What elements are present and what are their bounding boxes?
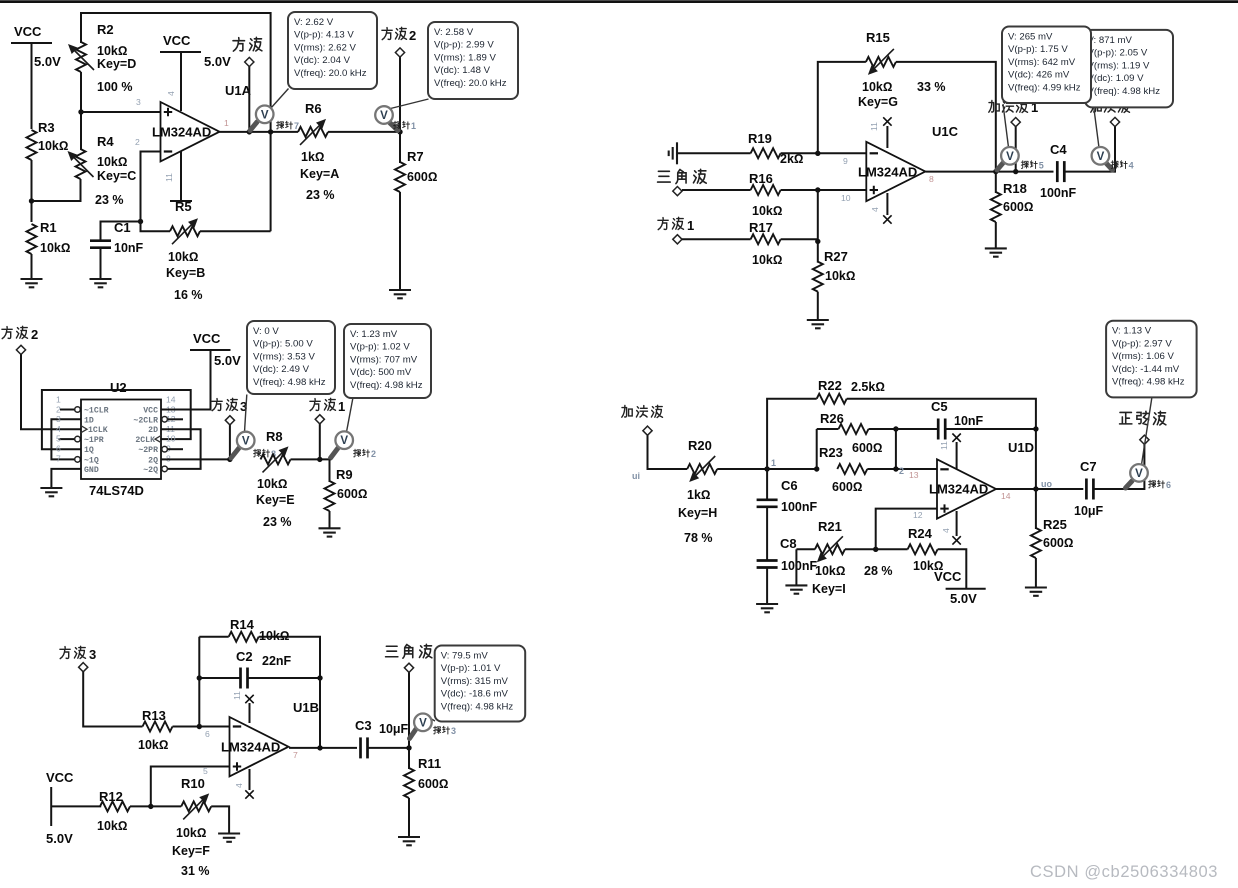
svg-text:R11: R11 [418,756,441,771]
resistor R16 [749,171,782,218]
svg-text:LM324AD: LM324AD [152,125,211,140]
pin labels left [84,407,109,475]
svg-text:5.0V: 5.0V [46,831,73,846]
svg-text:1kΩ: 1kΩ [687,488,711,502]
svg-text:3: 3 [56,414,61,424]
node 方波3 junction [227,457,232,462]
wire R6 to output node [328,131,400,133]
pin stub ~2PR [168,448,184,450]
svg-text:23 %: 23 % [95,193,124,207]
svg-text:V: 1.13 V: V: 1.13 V [1112,326,1152,337]
ground [807,320,829,328]
ground [21,279,43,287]
svg-text:33 %: 33 % [917,80,946,94]
svg-text:6: 6 [56,444,61,454]
node 方波 label [233,37,262,66]
svg-text:2: 2 [409,28,416,43]
node 加法波1 junction [1013,169,1018,174]
svg-text:V(dc): -1.44 mV: V(dc): -1.44 mV [1112,364,1180,375]
svg-text:22nF: 22nF [262,654,292,668]
svg-text:8: 8 [166,453,171,463]
measurement box probe2 [344,324,431,398]
probe 探针3 [410,714,457,739]
svg-text:14: 14 [1001,491,1011,501]
pin stub ~1CLR [60,409,75,411]
svg-text:7: 7 [56,453,61,463]
svg-text:V(dc): -18.6 mV: V(dc): -18.6 mV [441,689,509,700]
node 方波2 junction [397,129,402,134]
pin numbers left [56,395,61,464]
node B junction [78,109,83,114]
svg-text:R27: R27 [824,249,848,264]
ground [398,837,420,845]
svg-text:R20: R20 [688,438,712,453]
pin stub ~2CLR [168,418,184,420]
wire 方波1 to R17 [682,238,751,240]
svg-text:R12: R12 [99,789,123,804]
node 加法波 input label [622,405,663,435]
svg-text:~1Q: ~1Q [84,456,99,465]
node 方波2 label [382,27,416,57]
wire 方波1 stem [319,424,321,460]
svg-text:C5: C5 [931,399,948,414]
node 方波3 label [212,398,247,425]
wire R11 top [408,748,410,769]
svg-text:V: 265 mV: V: 265 mV [1008,32,1053,43]
node 三角波 label [386,644,432,672]
svg-text:Key=E: Key=E [256,493,295,507]
resistor R1 [27,220,71,255]
node A junction [29,198,34,203]
wire R24 to VCC [938,549,967,589]
svg-text:V(rms): 3.53 V: V(rms): 3.53 V [253,351,315,362]
svg-text:R14: R14 [230,617,255,632]
svg-text:LM324AD: LM324AD [929,482,988,497]
wire R12 to node E [130,805,152,807]
svg-text:U2: U2 [110,380,127,395]
svg-text:Key=A: Key=A [300,167,339,181]
measurement box probe1 [428,22,518,99]
wire R3 to node A [31,160,33,222]
svg-text:2: 2 [899,466,904,476]
potentiometer R4 [68,134,137,207]
svg-text:uo: uo [1041,479,1052,489]
wire square-wave stem [248,66,250,132]
wire R17 to R27 node [781,238,818,240]
ground [218,834,240,842]
potentiometer R10 [151,776,211,878]
resistor R25 [1031,517,1074,558]
svg-text:10μF: 10μF [379,722,409,736]
svg-text:10kΩ: 10kΩ [38,139,68,153]
svg-text:~2CLR: ~2CLR [133,416,158,425]
resistor R3 [27,120,69,160]
svg-text:2: 2 [56,404,61,414]
wire R27 to ground [817,292,819,320]
node bracket left junction [814,466,819,471]
svg-text:V(rms): 2.62 V: V(rms): 2.62 V [294,42,356,53]
node 加法波 label second [1091,100,1130,126]
svg-text:2D: 2D [148,426,158,435]
node output junction [317,745,322,750]
capacitor C7 [1074,459,1104,518]
svg-text:V(rms): 1.19 V: V(rms): 1.19 V [1088,60,1150,71]
power VCC V2 [160,33,231,69]
wire R18 top [995,172,997,193]
svg-text:1: 1 [224,118,229,128]
svg-text:11: 11 [164,173,174,182]
pin labels right [133,407,158,475]
svg-text:V(dc): 2.04 V: V(dc): 2.04 V [294,55,351,66]
svg-text:R17: R17 [749,220,773,235]
svg-text:2CLK: 2CLK [135,436,155,445]
svg-text:V(p-p): 1.02 V: V(p-p): 1.02 V [350,342,410,353]
svg-text:11: 11 [869,122,879,131]
svg-text:5.0V: 5.0V [950,591,977,606]
wire R19 to summing node [781,152,867,154]
node 方波1 label [310,398,345,424]
svg-text:V(dc): 500 mV: V(dc): 500 mV [350,367,412,378]
svg-text:7: 7 [293,750,298,760]
svg-text:V(freq): 4.98 kHz: V(freq): 4.98 kHz [350,380,423,391]
svg-text:600Ω: 600Ω [1043,536,1073,550]
wire C4 to 加法波 [1064,127,1115,172]
svg-text:GND: GND [84,466,99,475]
wire C8 to ground [766,568,768,605]
svg-text:R23: R23 [819,445,843,460]
pin 11 stem NC [883,117,891,148]
node C5 left junction [893,426,898,431]
ground [40,488,62,496]
capacitor C1 [90,220,144,255]
svg-text:1CLK: 1CLK [88,426,108,435]
wire node1 to parallel bracket [767,468,817,470]
svg-text:10kΩ: 10kΩ [752,204,782,218]
svg-text:4: 4 [941,528,951,533]
svg-text:31 %: 31 % [181,864,210,878]
wire R9 to ground [329,511,331,528]
svg-text:R9: R9 [336,467,353,482]
potentiometer R15 [858,30,946,109]
svg-text:V(p-p): 1.01 V: V(p-p): 1.01 V [441,663,501,674]
resistor R13 [138,708,173,752]
svg-text:V(freq): 20.0 kHz: V(freq): 20.0 kHz [434,78,507,89]
svg-text:10nF: 10nF [954,414,984,428]
pin bubble ~1Q [75,457,81,463]
svg-text:5: 5 [56,434,61,444]
wire parallel right bracket [895,429,897,469]
svg-text:10: 10 [166,434,176,444]
svg-text:Key=F: Key=F [172,844,210,858]
pin 4 stem NC [883,193,891,224]
node R17 junction [815,239,820,244]
probe 探针5 [997,104,1044,171]
svg-text:R26: R26 [820,411,844,426]
svg-text:R24: R24 [908,526,933,541]
resistor R17 [749,220,782,267]
svg-text:C6: C6 [781,478,798,493]
svg-text:1D: 1D [84,416,94,425]
wire top border [0,0,1238,3]
svg-text:V: 871 mV: V: 871 mV [1088,35,1133,46]
wire bias node to pin12 [876,509,937,550]
svg-text:23 %: 23 % [306,188,335,202]
svg-text:R25: R25 [1043,517,1067,532]
wire C1 top [101,222,141,241]
wire feedback right down [319,678,321,748]
measurement box probe6 [1106,321,1197,398]
wire 方波3 stem [229,425,231,460]
wire 三角波 stem [408,672,410,748]
wire R7 to ground [399,192,401,290]
wire R15 feedback [818,62,866,153]
node 正弦波 label [1120,411,1166,444]
svg-text:VCC: VCC [934,569,962,584]
measurement box probe4 [1085,30,1173,108]
svg-text:100nF: 100nF [1040,186,1076,200]
svg-text:R1: R1 [40,220,57,235]
wire R2 to node B [80,72,82,150]
svg-text:10kΩ: 10kΩ [825,269,855,283]
potentiometer R8 [256,429,295,529]
pin 11 stem NC [245,695,253,723]
wire 三角波 to R16 [682,189,751,191]
svg-text:10kΩ: 10kΩ [815,564,845,578]
wire 加法波 to R20 [648,435,688,469]
ground [985,248,1007,256]
wire R25 top [1035,489,1037,529]
resistor R9 [325,467,368,511]
svg-text:1kΩ: 1kΩ [301,150,325,164]
ground rotated R19 input [669,142,677,164]
svg-text:C2: C2 [236,649,253,664]
wire R21 to bias node [845,548,908,550]
wire node1 up to R22 [767,399,817,469]
wire VCC to R12 [51,805,101,807]
svg-text:14: 14 [166,395,176,405]
svg-text:R6: R6 [305,101,322,116]
svg-text:10kΩ: 10kΩ [138,738,168,752]
svg-text:23 %: 23 % [263,515,292,529]
svg-text:2Q: 2Q [148,456,158,465]
svg-text:10kΩ: 10kΩ [40,241,70,255]
wire C6 to C8 [766,507,768,561]
wire U1A output [220,131,299,133]
probe 探针4 [1092,108,1134,171]
pin 11 stem and bar [170,151,192,201]
node bracket right junction [893,466,898,471]
wire parallel left bracket [816,429,818,469]
ground [319,528,341,536]
node C junction [138,219,143,224]
wire loop 1Q to 2CLK [42,390,191,449]
svg-text:V: 79.5 mV: V: 79.5 mV [441,651,489,662]
svg-text:1Q: 1Q [84,446,94,455]
svg-text:4: 4 [166,91,176,96]
capacitor C2 [199,649,320,689]
probe 探针2 [331,399,377,460]
pin bubble ~2CLR [162,417,168,423]
svg-text:V(dc): 1.48 V: V(dc): 1.48 V [434,65,491,76]
svg-text:100nF: 100nF [781,500,817,514]
svg-text:V(p-p): 2.99 V: V(p-p): 2.99 V [434,40,494,51]
svg-text:100nF: 100nF [781,559,817,573]
resistor R18 [991,181,1034,222]
svg-text:V(p-p): 4.13 V: V(p-p): 4.13 V [294,30,354,41]
resistor R14 [199,617,320,678]
svg-text:~2PR: ~2PR [138,446,158,455]
wire R1 to ground [31,254,33,279]
svg-text:C7: C7 [1080,459,1097,474]
capacitor C6 [757,478,818,514]
node output junction [993,169,998,174]
wire C6 column [766,469,768,500]
capacitor C3 [355,718,409,758]
svg-text:VCC: VCC [163,33,191,48]
node 1 junction [764,466,769,471]
wire pin4 stem [180,52,182,111]
wire loop ~1Q to 1D [51,419,81,459]
wire R21 left to ground [795,549,797,584]
wire U1A pin2 to C1 node [141,152,161,222]
wire U1B output [289,747,357,749]
svg-text:6: 6 [205,729,210,739]
potentiometer R21 [796,519,892,596]
resistor R19 [748,131,804,166]
node 方波1 junction [317,457,322,462]
svg-text:8: 8 [929,174,934,184]
wire R18 to ground [995,222,997,248]
svg-text:Key=B: Key=B [166,266,205,280]
svg-text:~1CLR: ~1CLR [84,407,109,416]
node D junction [197,724,202,729]
svg-text:600Ω: 600Ω [1003,200,1033,214]
svg-text:R15: R15 [866,30,890,45]
capacitor C8 [757,536,818,573]
svg-text:V(freq): 20.0 kHz: V(freq): 20.0 kHz [294,68,367,79]
svg-text:4: 4 [870,207,880,212]
power VCC V3 rotated [46,770,74,846]
wire C1 to ground [100,248,102,279]
svg-text:5.0V: 5.0V [204,54,231,69]
svg-text:Key=D: Key=D [97,57,136,71]
svg-text:R13: R13 [142,708,166,723]
svg-text:2: 2 [371,449,376,459]
svg-text:10kΩ: 10kΩ [168,250,198,264]
IC body U2 [81,380,161,498]
svg-text:10μF: 10μF [1074,504,1104,518]
svg-text:R4: R4 [97,134,114,149]
svg-text:2: 2 [31,327,38,342]
svg-text:600Ω: 600Ω [418,777,448,791]
op-amp U1A [152,83,252,161]
wire feedback loop top [81,13,271,231]
wire R11 to ground [408,798,410,837]
svg-text:78 %: 78 % [684,531,713,545]
svg-text:10kΩ: 10kΩ [97,155,127,169]
svg-text:10kΩ: 10kΩ [752,253,782,267]
resistor R7 [395,149,437,192]
svg-text:CSDN @cb2506334803: CSDN @cb2506334803 [1030,863,1218,881]
wire 2Q output to R8 [161,458,230,460]
svg-text:Key=G: Key=G [858,95,898,109]
node 方波3 input label [60,646,96,672]
svg-text:V(dc): 426 mV: V(dc): 426 mV [1008,70,1070,81]
svg-text:4: 4 [234,783,244,788]
svg-text:3: 3 [136,97,141,107]
svg-text:LM324AD: LM324AD [858,165,917,180]
pin 11 stem NC [952,434,960,470]
svg-text:R3: R3 [38,120,55,135]
resistor R12 [97,789,130,833]
wire R16 to noninv node [781,189,867,191]
wire VCC to R3 [31,43,33,129]
svg-text:10nF: 10nF [114,241,144,255]
svg-text:R10: R10 [181,776,205,791]
probe 探针7 [250,89,299,132]
svg-text:V: 2.62 V: V: 2.62 V [294,17,334,28]
power VCC U2 [190,331,241,368]
svg-text:100 %: 100 % [97,80,132,94]
node noninverting junction [815,187,820,192]
svg-text:3: 3 [89,647,96,662]
svg-text:LM324AD: LM324AD [221,740,280,755]
svg-text:1: 1 [411,121,416,131]
svg-text:13: 13 [909,470,919,480]
svg-text:U1C: U1C [932,124,959,139]
potentiometer R5 [166,199,205,302]
svg-text:U1A: U1A [225,83,252,98]
wire noninv node down [817,190,819,263]
wire R7 top [399,132,401,163]
wire U1D output [996,488,1083,490]
capacitor C4 [1040,142,1076,200]
svg-text:600Ω: 600Ω [832,480,862,494]
node uo junction [1033,486,1038,491]
wire loop ~2Q to 2D [161,429,201,469]
svg-text:V(freq): 4.99 kHz: V(freq): 4.99 kHz [1008,82,1081,93]
svg-text:9: 9 [843,156,848,166]
svg-text:V(p-p): 5.00 V: V(p-p): 5.00 V [253,339,313,350]
pin bubble ~2Q [162,466,168,472]
node 三角波 input label [658,169,707,195]
potentiometer R6 [298,101,339,202]
node E junction [148,804,153,809]
node C2 left junction [197,675,202,680]
svg-text:C1: C1 [114,220,131,235]
svg-text:2: 2 [135,137,140,147]
pin bubble ~2PR [162,446,168,452]
ground small [785,585,807,593]
resistor R11 [404,756,448,798]
svg-text:R8: R8 [266,429,283,444]
svg-text:R16: R16 [749,171,773,186]
svg-text:R5: R5 [175,199,192,214]
probe 探针8 [231,395,276,460]
potentiometer R2 [68,22,136,94]
pin bubble ~1CLR [75,407,81,413]
probe 探针6 [1126,398,1172,490]
node 加法波1 label [989,100,1038,127]
svg-text:VCC: VCC [143,407,158,416]
clock wedge 2CLK [155,436,161,443]
wire node C to R5 [141,222,171,232]
svg-text:V(dc): 2.49 V: V(dc): 2.49 V [253,364,310,375]
svg-text:R22: R22 [818,378,842,393]
svg-text:12: 12 [913,510,923,520]
svg-text:VCC: VCC [46,770,74,785]
svg-text:600Ω: 600Ω [407,170,437,184]
